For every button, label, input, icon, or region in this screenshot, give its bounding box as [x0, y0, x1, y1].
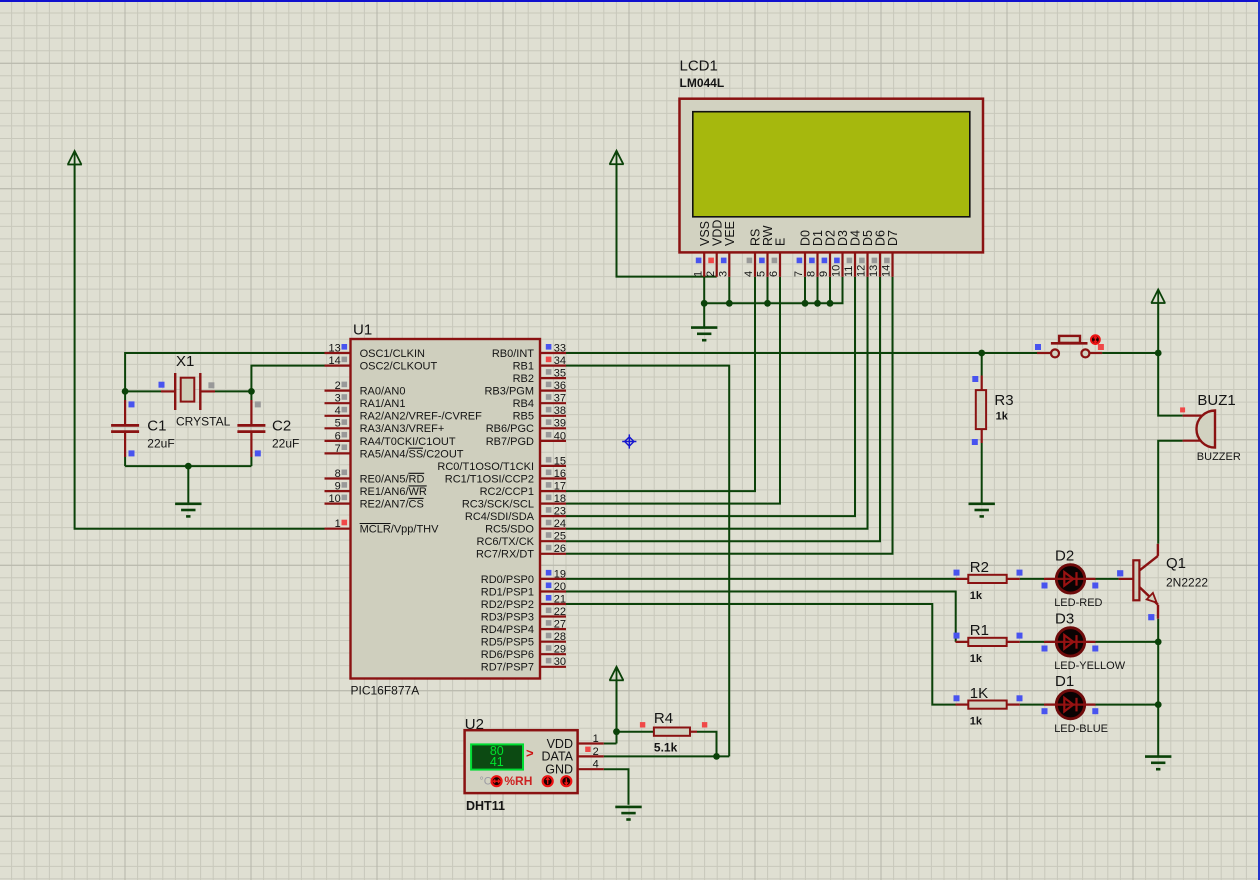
svg-text:3: 3	[718, 271, 730, 277]
svg-text:5: 5	[756, 271, 768, 277]
svg-text:%RH: %RH	[504, 774, 532, 788]
svg-text:X1: X1	[176, 353, 194, 370]
svg-text:6: 6	[335, 430, 341, 442]
svg-text:RA1/AN1: RA1/AN1	[360, 398, 406, 410]
svg-text:1k: 1k	[970, 653, 983, 665]
svg-text:VDD: VDD	[547, 737, 573, 751]
svg-text:12: 12	[856, 265, 868, 277]
svg-text:13: 13	[329, 342, 341, 354]
svg-text:7: 7	[335, 443, 341, 455]
svg-text:RA5/AN4/SS/C2OUT: RA5/AN4/SS/C2OUT	[360, 448, 464, 460]
svg-text:5: 5	[335, 418, 341, 430]
svg-text:RB3/PGM: RB3/PGM	[484, 386, 534, 398]
svg-text:39: 39	[554, 418, 566, 430]
svg-text:RD0/PSP0: RD0/PSP0	[481, 574, 534, 586]
svg-text:RB7/PGD: RB7/PGD	[486, 436, 534, 448]
svg-text:LED-BLUE: LED-BLUE	[1054, 723, 1108, 735]
svg-text:LCD1: LCD1	[680, 58, 718, 75]
svg-text:RB6/PGC: RB6/PGC	[486, 423, 534, 435]
svg-text:D3: D3	[1055, 611, 1074, 628]
svg-text:U1: U1	[353, 322, 372, 339]
svg-text:23: 23	[554, 506, 566, 518]
svg-text:D7: D7	[886, 230, 900, 246]
svg-text:CRYSTAL: CRYSTAL	[176, 415, 231, 429]
svg-text:RD6/PSP6: RD6/PSP6	[481, 649, 534, 661]
svg-text:41: 41	[490, 755, 504, 769]
svg-text:°C: °C	[479, 776, 491, 788]
svg-text:29: 29	[554, 644, 566, 656]
svg-text:RE2/AN7/CS: RE2/AN7/CS	[360, 499, 424, 511]
svg-text:28: 28	[554, 631, 566, 643]
svg-text:1: 1	[692, 271, 704, 277]
svg-text:20: 20	[554, 581, 566, 593]
svg-text:LED-RED: LED-RED	[1054, 597, 1102, 609]
svg-text:RC5/SDO: RC5/SDO	[485, 524, 534, 536]
svg-text:16: 16	[554, 468, 566, 480]
svg-text:19: 19	[554, 568, 566, 580]
svg-text:8: 8	[335, 468, 341, 480]
svg-text:RD7/PSP7: RD7/PSP7	[481, 662, 534, 674]
svg-text:RD2/PSP2: RD2/PSP2	[481, 599, 534, 611]
svg-text:RA2/AN2/VREF-/CVREF: RA2/AN2/VREF-/CVREF	[360, 411, 483, 423]
svg-text:DHT11: DHT11	[466, 799, 505, 813]
svg-text:1K: 1K	[970, 685, 988, 702]
svg-text:4: 4	[743, 271, 755, 277]
svg-text:RE1/AN6/WR: RE1/AN6/WR	[360, 486, 427, 498]
svg-text:3: 3	[335, 393, 341, 405]
svg-text:RA4/T0CKI/C1OUT: RA4/T0CKI/C1OUT	[360, 436, 456, 448]
svg-text:4: 4	[335, 405, 341, 417]
svg-text:D1: D1	[1055, 673, 1074, 690]
svg-text:15: 15	[554, 455, 566, 467]
svg-text:27: 27	[554, 619, 566, 631]
svg-text:2: 2	[705, 271, 717, 277]
svg-text:Q1: Q1	[1166, 555, 1186, 572]
svg-text:>: >	[526, 745, 534, 760]
svg-text:18: 18	[554, 493, 566, 505]
svg-text:1: 1	[335, 518, 341, 530]
svg-text:1: 1	[593, 733, 599, 745]
svg-text:13: 13	[868, 265, 880, 277]
svg-text:21: 21	[554, 593, 566, 605]
svg-text:RD1/PSP1: RD1/PSP1	[481, 586, 534, 598]
svg-text:RD4/PSP4: RD4/PSP4	[481, 624, 534, 636]
svg-text:OSC2/CLKOUT: OSC2/CLKOUT	[360, 361, 438, 373]
svg-text:C2: C2	[272, 418, 291, 435]
svg-text:26: 26	[554, 543, 566, 555]
svg-text:9: 9	[335, 481, 341, 493]
svg-text:GND: GND	[545, 763, 573, 777]
svg-text:25: 25	[554, 531, 566, 543]
svg-text:17: 17	[554, 481, 566, 493]
svg-text:R1: R1	[970, 622, 989, 639]
svg-text:2: 2	[593, 746, 599, 758]
svg-text:PIC16F877A: PIC16F877A	[351, 684, 420, 698]
svg-text:40: 40	[554, 430, 566, 442]
svg-text:14: 14	[329, 355, 341, 367]
svg-text:R4: R4	[654, 710, 673, 727]
svg-text:2N2222: 2N2222	[1166, 576, 1208, 590]
svg-text:RC4/SDI/SDA: RC4/SDI/SDA	[465, 511, 535, 523]
svg-text:30: 30	[554, 656, 566, 668]
svg-text:10: 10	[329, 493, 341, 505]
svg-text:RA0/AN0: RA0/AN0	[360, 386, 406, 398]
svg-text:37: 37	[554, 393, 566, 405]
svg-text:RC3/SCK/SCL: RC3/SCK/SCL	[462, 499, 534, 511]
svg-text:22uF: 22uF	[272, 437, 299, 451]
svg-text:RD3/PSP3: RD3/PSP3	[481, 611, 534, 623]
svg-text:RC6/TX/CK: RC6/TX/CK	[477, 536, 535, 548]
svg-text:R2: R2	[970, 559, 989, 576]
svg-text:C1: C1	[147, 418, 166, 435]
svg-text:1k: 1k	[996, 411, 1009, 423]
svg-text:11: 11	[843, 266, 855, 277]
svg-text:34: 34	[554, 355, 566, 367]
svg-text:LM044L: LM044L	[680, 76, 725, 90]
svg-text:RC2/CCP1: RC2/CCP1	[480, 486, 534, 498]
svg-text:RB5: RB5	[513, 411, 534, 423]
svg-text:RB0/INT: RB0/INT	[492, 348, 534, 360]
svg-text:RD5/PSP5: RD5/PSP5	[481, 637, 534, 649]
svg-text:1k: 1k	[970, 716, 983, 728]
svg-text:D2: D2	[1055, 548, 1074, 565]
svg-text:38: 38	[554, 405, 566, 417]
svg-text:4: 4	[593, 759, 599, 771]
svg-text:1k: 1k	[970, 590, 983, 602]
svg-text:5.1k: 5.1k	[654, 741, 678, 755]
svg-text:RB1: RB1	[513, 361, 534, 373]
svg-text:22: 22	[554, 606, 566, 618]
svg-text:RC0/T1OSO/T1CKI: RC0/T1OSO/T1CKI	[437, 461, 534, 473]
svg-text:E: E	[774, 238, 788, 246]
svg-text:RB4: RB4	[513, 398, 534, 410]
svg-text:RA3/AN3/VREF+: RA3/AN3/VREF+	[360, 423, 445, 435]
svg-text:9: 9	[818, 271, 830, 277]
svg-text:U2: U2	[465, 716, 484, 733]
svg-text:24: 24	[554, 518, 566, 530]
svg-text:36: 36	[554, 380, 566, 392]
svg-text:VEE: VEE	[723, 221, 737, 246]
svg-text:LED-YELLOW: LED-YELLOW	[1054, 660, 1126, 672]
svg-text:MCLR/Vpp/THV: MCLR/Vpp/THV	[360, 524, 440, 536]
svg-text:35: 35	[554, 368, 566, 380]
svg-text:22uF: 22uF	[147, 437, 174, 451]
svg-text:14: 14	[881, 265, 893, 277]
svg-text:8: 8	[806, 271, 818, 277]
svg-text:RB2: RB2	[513, 373, 534, 385]
svg-text:BUZ1: BUZ1	[1197, 392, 1235, 409]
svg-text:10: 10	[831, 265, 843, 277]
svg-text:2: 2	[335, 380, 341, 392]
svg-text:OSC1/CLKIN: OSC1/CLKIN	[360, 348, 425, 360]
svg-text:33: 33	[554, 342, 566, 354]
svg-text:RC7/RX/DT: RC7/RX/DT	[476, 549, 534, 561]
svg-text:7: 7	[793, 271, 805, 277]
svg-text:BUZZER: BUZZER	[1197, 451, 1241, 463]
svg-text:6: 6	[768, 271, 780, 277]
svg-text:R3: R3	[994, 392, 1013, 409]
svg-text:RC1/T1OSI/CCP2: RC1/T1OSI/CCP2	[445, 473, 534, 485]
svg-text:RE0/AN5/RD: RE0/AN5/RD	[360, 473, 425, 485]
